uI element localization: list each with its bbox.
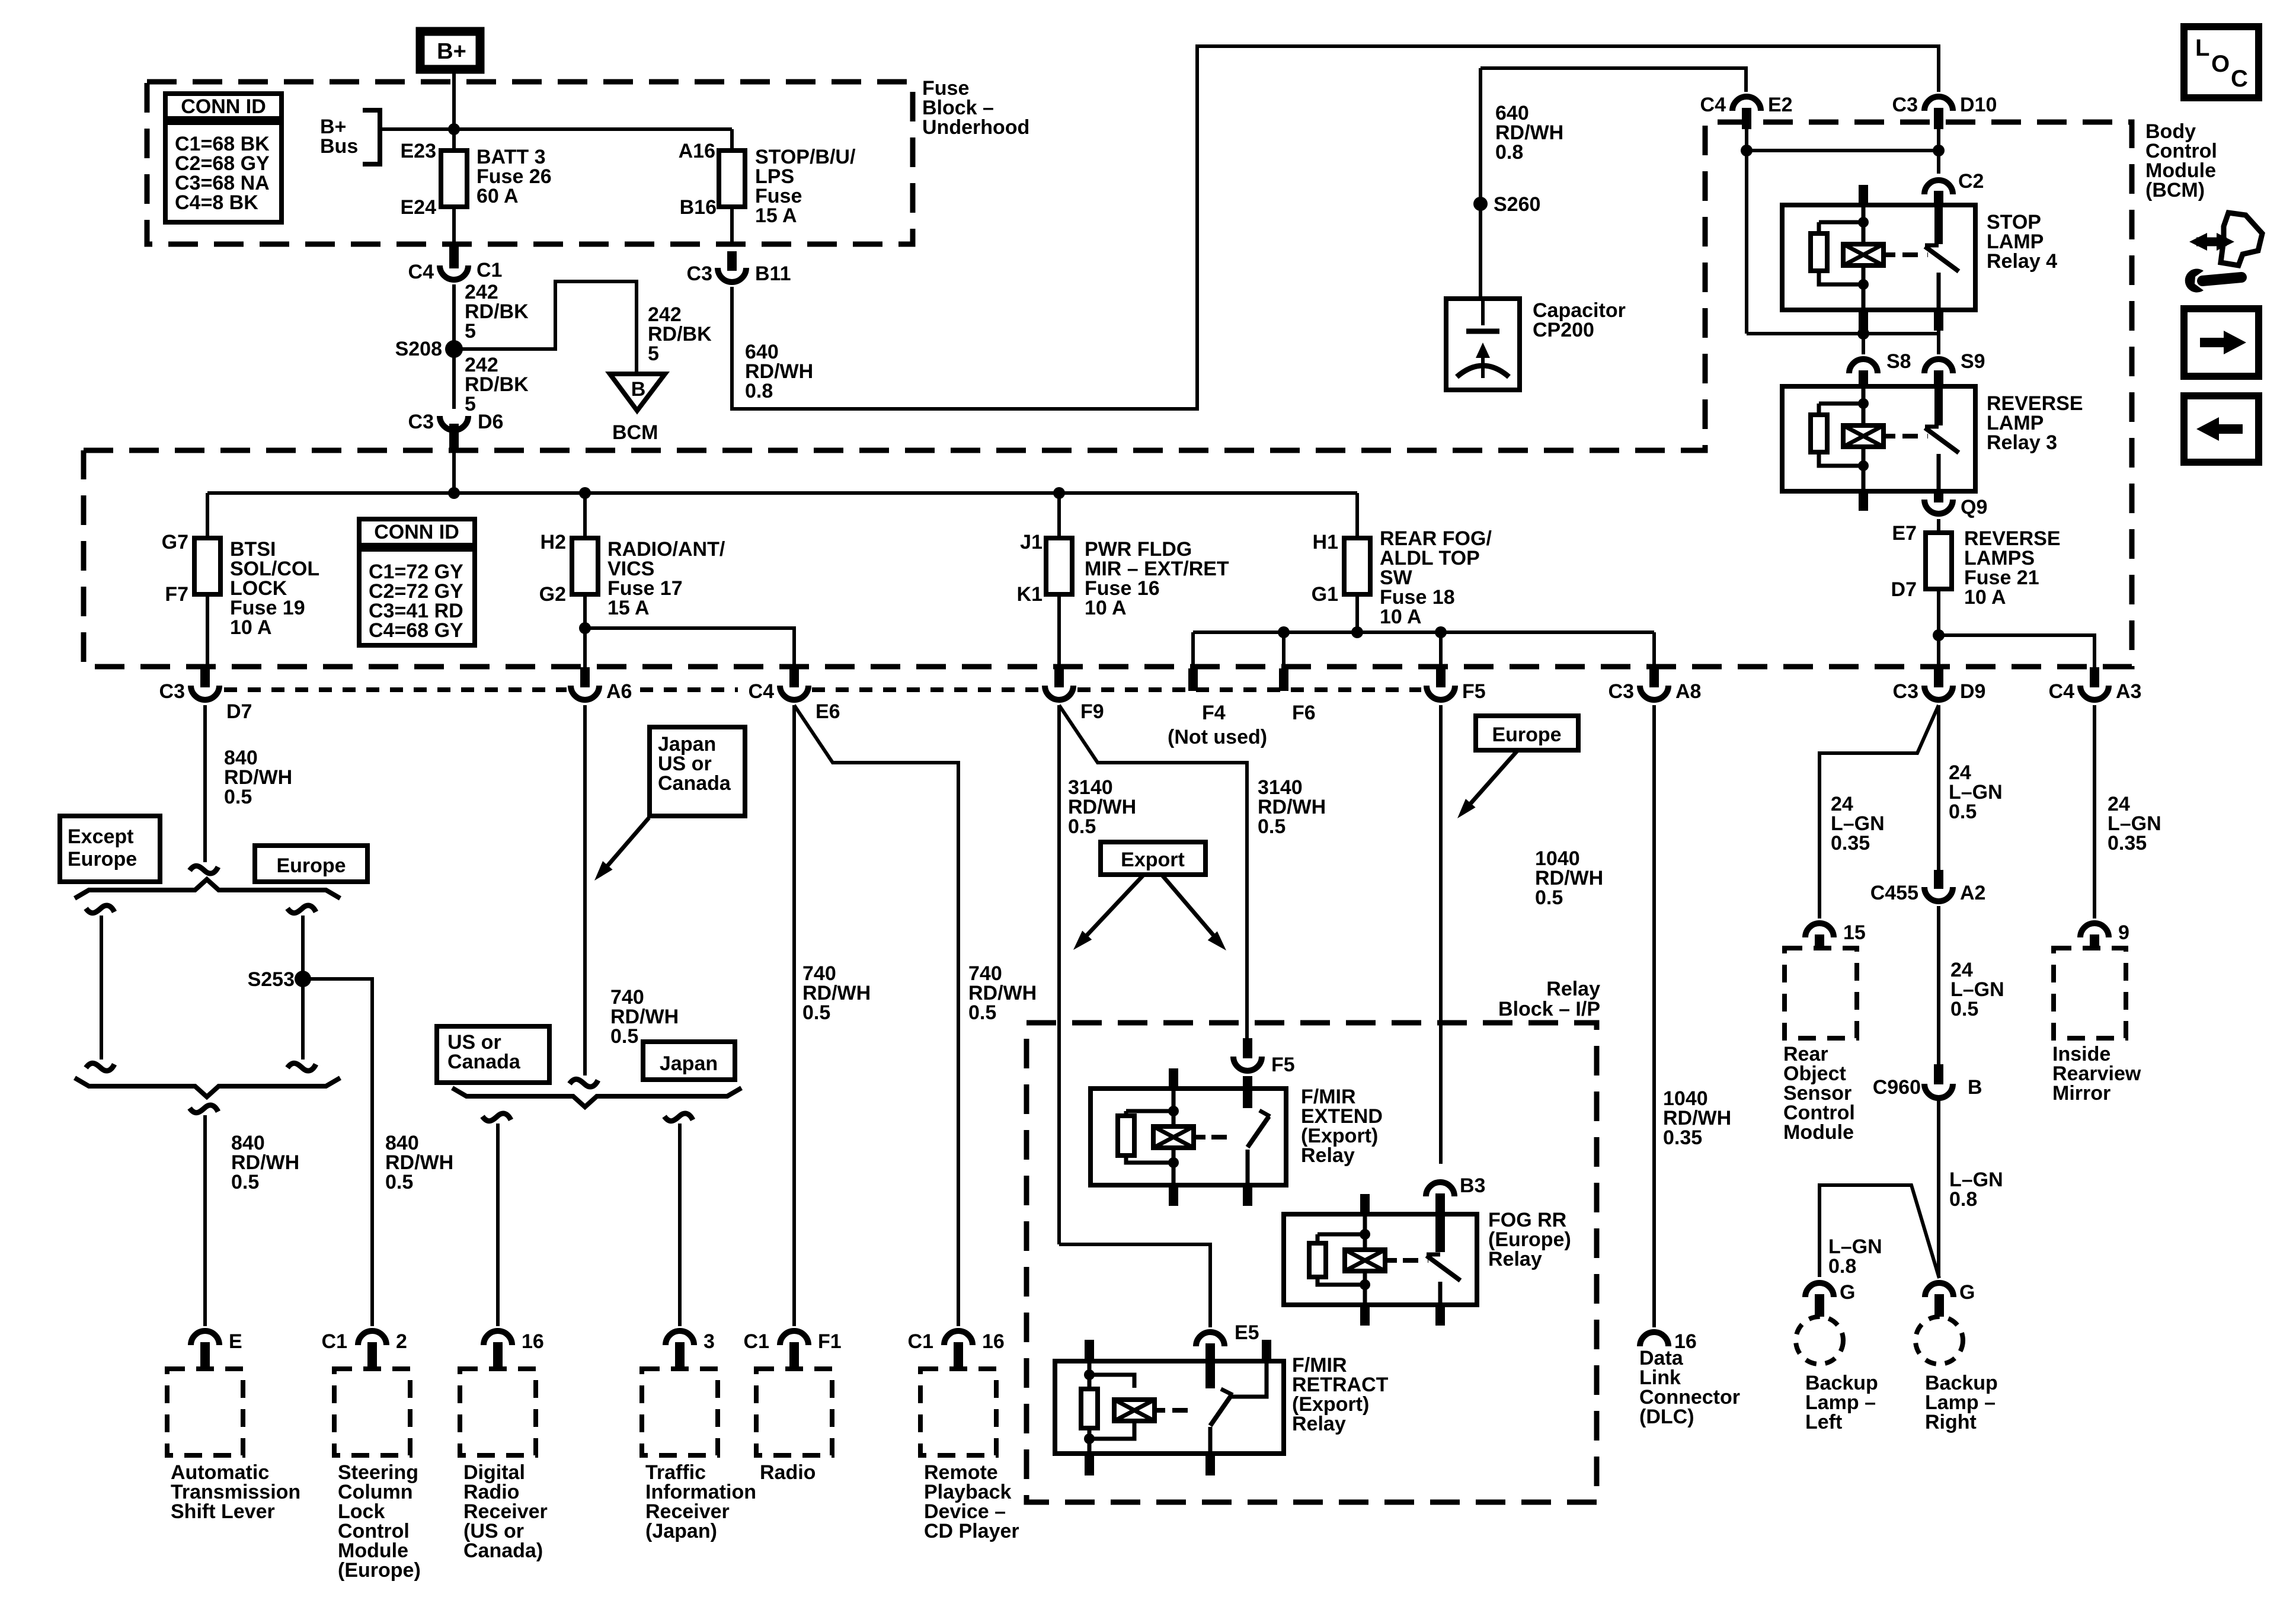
svg-text:F5: F5 xyxy=(1462,680,1486,703)
svg-text:0.5: 0.5 xyxy=(1258,815,1285,838)
svg-text:Relay: Relay xyxy=(1292,1413,1346,1435)
svg-text:C3: C3 xyxy=(687,263,712,285)
svg-text:Export: Export xyxy=(1121,849,1185,871)
svg-text:C1: C1 xyxy=(744,1330,769,1353)
svg-text:A2: A2 xyxy=(1960,882,1985,904)
svg-text:A6: A6 xyxy=(606,680,632,703)
svg-text:0.5: 0.5 xyxy=(231,1171,259,1193)
svg-text:BCM: BCM xyxy=(612,421,658,444)
svg-text:D7: D7 xyxy=(226,700,252,723)
svg-text:F9: F9 xyxy=(1080,700,1104,723)
svg-text:C1: C1 xyxy=(477,259,502,281)
svg-text:D6: D6 xyxy=(478,411,503,433)
svg-text:60 A: 60 A xyxy=(477,185,519,207)
svg-text:G2: G2 xyxy=(539,583,566,606)
svg-text:5: 5 xyxy=(648,343,659,365)
svg-text:0.8: 0.8 xyxy=(745,380,773,402)
svg-text:Europe: Europe xyxy=(1492,724,1561,746)
svg-text:C1: C1 xyxy=(322,1330,347,1353)
svg-text:C4: C4 xyxy=(749,680,775,703)
svg-text:2: 2 xyxy=(396,1330,407,1353)
svg-text:A8: A8 xyxy=(1675,680,1701,703)
svg-text:Q9: Q9 xyxy=(1961,496,1987,518)
svg-text:C3: C3 xyxy=(1609,680,1634,703)
svg-text:C3: C3 xyxy=(408,411,434,433)
svg-text:H1: H1 xyxy=(1313,531,1338,553)
svg-text:(Japan): (Japan) xyxy=(645,1520,717,1542)
svg-text:Relay: Relay xyxy=(1488,1248,1542,1270)
svg-text:C4: C4 xyxy=(408,261,434,283)
svg-text:C2: C2 xyxy=(1958,170,1984,193)
svg-text:10 A: 10 A xyxy=(1380,606,1422,628)
svg-text:F6: F6 xyxy=(1292,702,1316,724)
svg-text:C455: C455 xyxy=(1870,882,1918,904)
svg-text:15 A: 15 A xyxy=(755,204,797,227)
svg-text:G7: G7 xyxy=(162,531,188,553)
svg-text:C4: C4 xyxy=(2049,680,2075,703)
svg-text:C3: C3 xyxy=(1892,94,1918,116)
svg-text:L: L xyxy=(2195,35,2209,61)
svg-text:0.5: 0.5 xyxy=(385,1171,413,1193)
svg-text:B3: B3 xyxy=(1460,1174,1485,1197)
svg-text:0.8: 0.8 xyxy=(1828,1255,1856,1278)
svg-text:E5: E5 xyxy=(1235,1321,1259,1344)
svg-text:10 A: 10 A xyxy=(1964,586,2006,609)
svg-text:(Europe): (Europe) xyxy=(338,1559,421,1582)
svg-text:C: C xyxy=(2231,66,2248,92)
svg-text:5: 5 xyxy=(465,320,476,343)
svg-text:Relay: Relay xyxy=(1546,978,1600,1000)
svg-text:0.5: 0.5 xyxy=(968,1001,996,1024)
svg-text:15 A: 15 A xyxy=(607,597,650,619)
svg-text:G: G xyxy=(1959,1281,1975,1304)
svg-text:D10: D10 xyxy=(1960,94,1997,116)
svg-text:S8: S8 xyxy=(1886,350,1911,373)
svg-text:S260: S260 xyxy=(1494,193,1540,216)
svg-text:S253: S253 xyxy=(248,968,295,991)
svg-text:B+: B+ xyxy=(437,39,466,64)
svg-text:0.5: 0.5 xyxy=(1949,801,1977,823)
svg-text:C1: C1 xyxy=(908,1330,933,1353)
svg-text:5: 5 xyxy=(465,393,476,415)
svg-text:Europe: Europe xyxy=(68,848,137,870)
svg-text:Europe: Europe xyxy=(276,854,346,877)
svg-text:C3: C3 xyxy=(159,680,185,703)
svg-text:0.5: 0.5 xyxy=(1535,886,1563,909)
svg-text:B16: B16 xyxy=(680,196,717,219)
svg-text:Mirror: Mirror xyxy=(2052,1082,2110,1105)
svg-text:C4=68 GY: C4=68 GY xyxy=(369,619,463,642)
svg-text:A3: A3 xyxy=(2116,680,2141,703)
svg-text:C3: C3 xyxy=(1893,680,1918,703)
svg-text:0.5: 0.5 xyxy=(802,1001,830,1024)
svg-text:K1: K1 xyxy=(1017,583,1043,606)
svg-text:S9: S9 xyxy=(1961,350,1985,373)
svg-text:0.8: 0.8 xyxy=(1495,141,1523,164)
svg-text:(Not used): (Not used) xyxy=(1168,726,1267,748)
svg-text:E2: E2 xyxy=(1768,94,1793,116)
svg-text:E7: E7 xyxy=(1892,522,1917,545)
svg-text:10 A: 10 A xyxy=(230,616,272,639)
svg-text:J1: J1 xyxy=(1020,531,1043,553)
svg-text:16: 16 xyxy=(522,1330,544,1353)
svg-text:15: 15 xyxy=(1843,921,1866,944)
svg-text:CD Player: CD Player xyxy=(924,1520,1019,1542)
svg-text:0.8: 0.8 xyxy=(1949,1188,1977,1211)
svg-text:D7: D7 xyxy=(1891,578,1917,601)
svg-text:Except: Except xyxy=(68,825,134,848)
svg-text:Canada: Canada xyxy=(447,1051,521,1073)
svg-text:B: B xyxy=(631,378,646,401)
svg-text:10 A: 10 A xyxy=(1085,597,1127,619)
svg-text:E6: E6 xyxy=(816,700,840,723)
svg-text:S208: S208 xyxy=(395,338,442,360)
svg-text:F5: F5 xyxy=(1271,1054,1295,1076)
svg-text:F7: F7 xyxy=(165,583,188,606)
svg-text:O: O xyxy=(2211,51,2230,77)
svg-text:0.5: 0.5 xyxy=(1068,815,1096,838)
svg-text:D9: D9 xyxy=(1960,680,1985,703)
svg-text:Module: Module xyxy=(1783,1121,1854,1144)
svg-text:Underhood: Underhood xyxy=(922,116,1029,139)
svg-text:H2: H2 xyxy=(541,531,566,553)
svg-text:Relay: Relay xyxy=(1301,1144,1355,1167)
svg-text:E23: E23 xyxy=(401,140,437,162)
svg-text:Right: Right xyxy=(1925,1411,1977,1433)
svg-text:Canada): Canada) xyxy=(463,1539,543,1562)
svg-text:F1: F1 xyxy=(818,1330,842,1353)
svg-text:(BCM): (BCM) xyxy=(2145,179,2205,201)
svg-text:0.35: 0.35 xyxy=(2108,832,2147,854)
svg-text:C960: C960 xyxy=(1873,1076,1921,1099)
svg-text:C4: C4 xyxy=(1700,94,1726,116)
svg-text:B: B xyxy=(1968,1076,1982,1099)
svg-text:0.35: 0.35 xyxy=(1663,1126,1702,1149)
svg-text:E: E xyxy=(229,1330,242,1353)
svg-text:E24: E24 xyxy=(401,196,437,219)
svg-text:Canada: Canada xyxy=(658,772,731,795)
svg-text:F4: F4 xyxy=(1202,702,1226,724)
svg-text:Relay 4: Relay 4 xyxy=(1987,250,2057,273)
svg-text:0.5: 0.5 xyxy=(1950,998,1978,1020)
svg-text:Shift Lever: Shift Lever xyxy=(171,1500,275,1523)
svg-text:G1: G1 xyxy=(1312,583,1338,606)
svg-text:CONN ID: CONN ID xyxy=(181,95,266,118)
svg-text:3: 3 xyxy=(703,1330,715,1353)
svg-text:Left: Left xyxy=(1805,1411,1842,1433)
svg-text:CP200: CP200 xyxy=(1533,319,1594,341)
svg-text:C4=8 BK: C4=8 BK xyxy=(175,191,258,214)
svg-text:(DLC): (DLC) xyxy=(1639,1406,1694,1428)
svg-text:9: 9 xyxy=(2118,921,2129,944)
svg-text:G: G xyxy=(1840,1281,1855,1304)
svg-text:0.35: 0.35 xyxy=(1831,832,1870,854)
svg-text:16: 16 xyxy=(982,1330,1005,1353)
svg-text:CONN ID: CONN ID xyxy=(374,521,459,543)
svg-text:Relay 3: Relay 3 xyxy=(1987,431,2057,454)
svg-text:0.5: 0.5 xyxy=(224,786,252,808)
svg-text:Radio: Radio xyxy=(760,1461,816,1484)
svg-text:Japan: Japan xyxy=(660,1052,718,1075)
svg-text:Block – I/P: Block – I/P xyxy=(1498,998,1600,1020)
svg-text:Bus: Bus xyxy=(320,135,358,158)
svg-text:B11: B11 xyxy=(755,263,791,285)
svg-text:A16: A16 xyxy=(679,140,715,162)
svg-text:0.5: 0.5 xyxy=(610,1025,638,1048)
